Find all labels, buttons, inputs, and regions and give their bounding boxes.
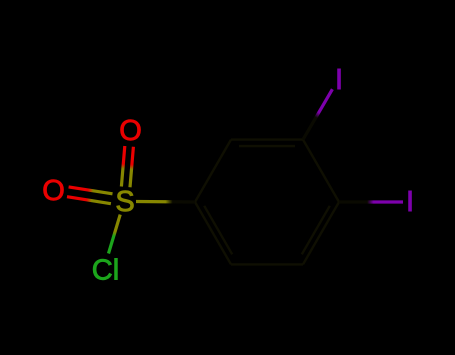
svg-text:Cl: Cl: [92, 255, 119, 287]
bond S-C1: [136, 200, 195, 204]
svg-text:O: O: [119, 115, 142, 147]
svg-text:I: I: [335, 64, 343, 96]
aromatic inner bond C4-C5: [302, 206, 330, 255]
svg-text:I: I: [406, 186, 414, 218]
bond S=O top (double): [121, 146, 133, 187]
benzene ring C1-C6: [195, 140, 339, 265]
svg-text:S: S: [115, 186, 134, 218]
bond S=O left (double): [67, 187, 113, 204]
aromatic inner bond C2-C3: [239, 145, 295, 147]
wire C6-C1: [195, 202, 231, 264]
bond C4-I: [339, 200, 403, 203]
wire C4-C5: [303, 202, 339, 264]
aromatic inner bond C6-C1: [204, 206, 232, 255]
svg-text:O: O: [42, 175, 65, 207]
wire C2-C3: [231, 138, 303, 140]
wire C5-C6: [231, 263, 303, 265]
bond S-Cl: [109, 215, 121, 254]
wire C3-C4: [303, 140, 339, 202]
wire C1-C2: [195, 140, 231, 202]
bond C3-I: [303, 89, 332, 139]
